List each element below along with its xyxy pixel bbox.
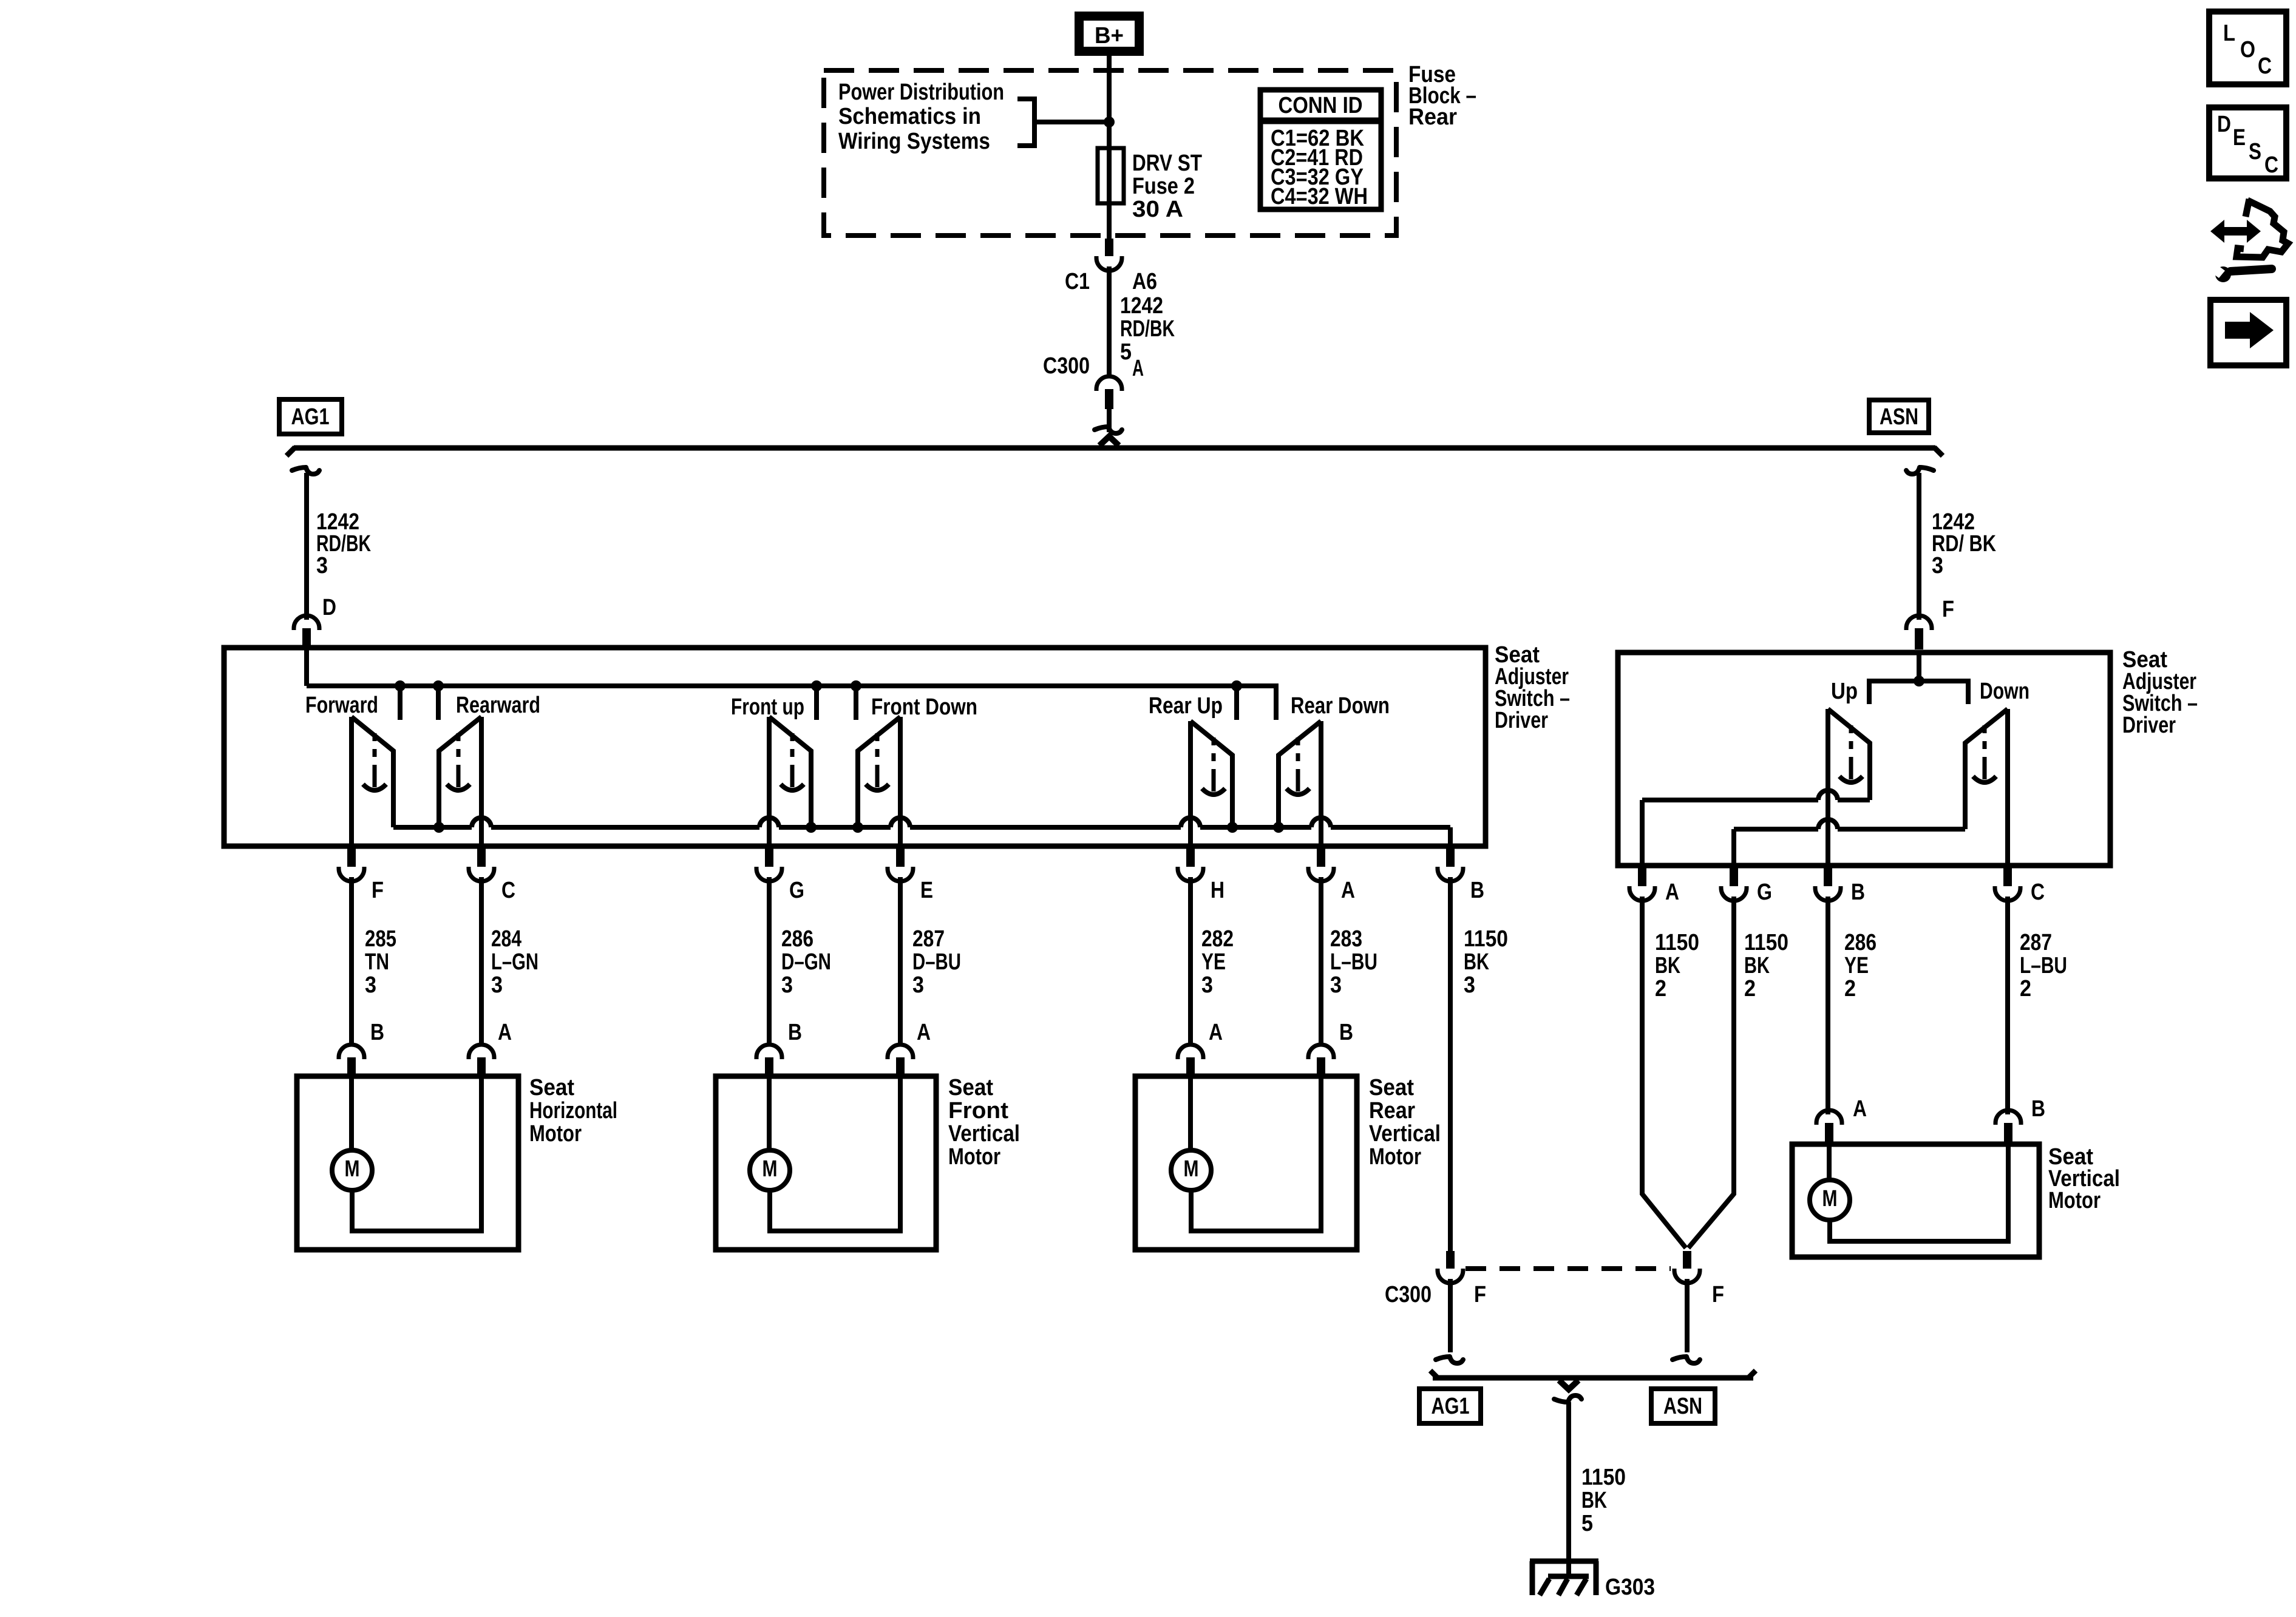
switch pole wire at 1483	[898, 717, 903, 846]
svg-text:AG1: AG1	[1432, 1394, 1470, 1419]
splice curl bottom right	[1673, 1357, 1700, 1363]
svg-text:Power Distribution: Power Distribution	[838, 80, 1004, 105]
net label ASN	[1869, 400, 1929, 433]
svg-text:C300: C300	[1043, 353, 1090, 379]
svg-text:1150: 1150	[1464, 926, 1508, 952]
svg-text:Motor: Motor	[529, 1121, 582, 1147]
svg-text:G: G	[789, 878, 804, 903]
svg-text:L–GN: L–GN	[491, 949, 538, 975]
motor internal return wire	[1191, 1079, 1321, 1231]
svg-text:286: 286	[781, 926, 813, 952]
svg-text:C: C	[2031, 880, 2045, 905]
svg-text:C: C	[2258, 53, 2272, 79]
svg-text:3: 3	[1464, 972, 1475, 998]
svg-text:3: 3	[316, 553, 328, 578]
motor box	[716, 1076, 936, 1250]
wire 1242 RD/BK 5	[1107, 266, 1112, 378]
svg-text:Rear: Rear	[1369, 1098, 1415, 1124]
fixed contact stub at 1410	[851, 680, 861, 691]
svg-text:2: 2	[1655, 976, 1666, 1002]
adjust icon double arrow	[2210, 220, 2261, 243]
next-page arrow box	[2210, 300, 2286, 365]
svg-text:Vertical: Vertical	[1369, 1121, 1441, 1147]
internal feed bracket	[1917, 653, 1921, 681]
wire 1242 RD/BK 3 left	[304, 473, 309, 620]
svg-text:D: D	[2217, 112, 2231, 137]
wire 1150 BK 3 pin B to C300	[1448, 877, 1453, 1251]
svg-text:1150: 1150	[1655, 930, 1699, 955]
connector pin B of left switch	[1446, 846, 1455, 867]
motor input connectors	[339, 1045, 364, 1059]
svg-text:Motor: Motor	[948, 1144, 1000, 1170]
wire to motor at 793	[479, 877, 484, 1045]
svg-text:F: F	[1942, 597, 1954, 622]
svg-text:B: B	[788, 1020, 802, 1045]
CONN ID table	[1260, 90, 1381, 209]
wire below C300 F	[1448, 1279, 1453, 1352]
svg-text:Wiring Systems: Wiring Systems	[838, 129, 990, 154]
svg-text:Fuse 2: Fuse 2	[1132, 174, 1195, 199]
svg-text:S: S	[2249, 139, 2261, 164]
net label ASN bottom	[1651, 1389, 1715, 1423]
svg-text:Motor: Motor	[1369, 1144, 1421, 1170]
svg-text:3: 3	[1330, 972, 1342, 998]
svg-text:Driver: Driver	[2122, 713, 2176, 738]
connector C300 pin F right	[1683, 1251, 1691, 1269]
connector pin C of right switch	[2003, 866, 2012, 886]
svg-text:5: 5	[1120, 339, 1132, 365]
LOC legend box	[2209, 12, 2286, 84]
wire B+ to fuse	[1107, 56, 1112, 240]
junction on output bus at 1413	[852, 822, 863, 833]
splice curl bottom left	[1436, 1357, 1463, 1363]
motor M	[767, 1079, 772, 1151]
svg-text:1150: 1150	[1744, 930, 1788, 955]
svg-text:E: E	[920, 878, 933, 903]
net label AG1 bottom	[1419, 1389, 1481, 1423]
svg-text:30 A: 30 A	[1132, 197, 1183, 222]
svg-text:B: B	[370, 1020, 384, 1045]
svg-text:2: 2	[2020, 976, 2031, 1002]
connector pin F of left switch	[347, 846, 356, 867]
svg-text:C300: C300	[1385, 1282, 1432, 1307]
adjust icon wrench	[2230, 269, 2272, 271]
svg-text:A6: A6	[1132, 269, 1157, 294]
svg-text:ASN: ASN	[1880, 404, 1918, 430]
svg-text:Rear: Rear	[1408, 104, 1457, 130]
svg-text:ASN: ASN	[1663, 1394, 1702, 1419]
svg-text:Forward: Forward	[305, 693, 378, 718]
svg-text:C1: C1	[1065, 269, 1090, 294]
svg-text:DRV ST: DRV ST	[1132, 151, 1202, 176]
DESC legend box	[2209, 107, 2286, 178]
wire to motor at 1961	[1188, 877, 1193, 1045]
svg-text:284: 284	[491, 926, 521, 952]
Seat Vertical Motor	[1816, 1110, 1842, 1125]
Seat Adjuster Switch - Driver (left) box	[224, 648, 1486, 846]
svg-text:287: 287	[912, 926, 945, 952]
svg-text:3: 3	[491, 972, 503, 998]
fixed contact stub at 2037	[1231, 680, 1242, 691]
motor internal return wire	[770, 1079, 900, 1231]
svg-text:283: 283	[1330, 926, 1362, 952]
connector pin E of left switch	[896, 846, 905, 867]
svg-text:D–BU: D–BU	[912, 949, 961, 975]
svg-text:F: F	[1712, 1282, 1724, 1307]
svg-text:M: M	[1184, 1156, 1199, 1182]
svg-text:3: 3	[912, 972, 924, 998]
svg-text:RD/BK: RD/BK	[1120, 316, 1175, 342]
svg-text:CONN ID: CONN ID	[1279, 93, 1363, 118]
internal wire to pin G	[1734, 827, 1818, 832]
svg-text:Front Down: Front Down	[871, 694, 977, 720]
svg-text:A: A	[1209, 1020, 1223, 1045]
svg-text:285: 285	[365, 926, 396, 952]
ground G303	[1530, 1559, 1598, 1564]
svg-text:B+: B+	[1095, 23, 1124, 49]
Seat Adjuster Switch - Driver (right) box	[1618, 653, 2110, 866]
svg-text:3: 3	[365, 972, 376, 998]
svg-text:E: E	[2233, 125, 2246, 151]
connector C300 pin A	[1096, 376, 1122, 391]
svg-text:M: M	[763, 1156, 778, 1182]
svg-text:287: 287	[2020, 930, 2052, 955]
junction on output bus at 723	[433, 822, 444, 833]
svg-text:Seat: Seat	[948, 1075, 993, 1100]
motor M	[1188, 1079, 1193, 1151]
svg-text:A: A	[1132, 356, 1144, 381]
svg-text:Front: Front	[948, 1098, 1008, 1124]
svg-text:YE: YE	[1201, 949, 1226, 975]
svg-text:AG1: AG1	[291, 404, 330, 430]
svg-text:TN: TN	[365, 949, 389, 975]
battery feed B+ terminal	[1075, 12, 1144, 56]
splice curl at bus	[1095, 427, 1122, 433]
internal output bus to pin B	[393, 825, 472, 830]
svg-text:H: H	[1211, 878, 1224, 903]
svg-text:B: B	[1470, 878, 1484, 903]
connector pin C of left switch	[477, 846, 486, 867]
junction on output bus at 2106	[1273, 822, 1284, 833]
switch poles	[1826, 709, 1830, 866]
switch pole wire at 1267	[767, 717, 772, 846]
connector pin B of right switch	[1824, 866, 1832, 886]
svg-text:BK: BK	[1655, 953, 1680, 978]
fixed contact stub at 1345	[811, 680, 822, 691]
connector pin A of left switch	[1317, 846, 1325, 867]
svg-text:Up: Up	[1831, 679, 1858, 704]
bracket from note to feed wire	[1017, 99, 1034, 146]
svg-text:BK: BK	[1744, 953, 1770, 978]
svg-text:C: C	[501, 878, 515, 903]
svg-text:D: D	[322, 595, 336, 620]
svg-text:C: C	[2264, 152, 2278, 178]
svg-text:L: L	[2223, 21, 2235, 46]
svg-text:M: M	[345, 1156, 360, 1182]
output bus drop to pin B	[1448, 827, 1453, 846]
svg-text:M: M	[1822, 1186, 1838, 1212]
connector pin H of left switch	[1186, 846, 1195, 867]
junction on output bus at 1336	[806, 822, 817, 833]
svg-text:Seat: Seat	[529, 1075, 574, 1100]
splice curl left drop	[292, 467, 319, 474]
svg-text:F: F	[1474, 1282, 1486, 1307]
svg-text:Rear Down: Rear Down	[1291, 693, 1390, 719]
svg-text:3: 3	[1932, 553, 1943, 578]
switch pole wire at 579	[349, 717, 354, 846]
svg-text:1242: 1242	[1120, 293, 1163, 319]
svg-text:L–BU: L–BU	[2020, 953, 2067, 978]
connector pin G of right switch	[1730, 866, 1738, 886]
svg-text:D–GN: D–GN	[781, 949, 831, 975]
svg-text:A: A	[1665, 880, 1679, 905]
svg-text:Rear Up: Rear Up	[1149, 693, 1223, 719]
svg-text:B: B	[1339, 1020, 1353, 1045]
internal wire to pin A	[1642, 798, 1818, 802]
motor input connectors	[756, 1045, 782, 1059]
svg-text:282: 282	[1201, 926, 1234, 952]
adjust icon outline	[2237, 199, 2288, 257]
wire 1242 RD/ BK 3 right	[1917, 473, 1921, 620]
svg-text:BK: BK	[1581, 1488, 1607, 1513]
fixed contact stub at 722	[433, 680, 444, 691]
splice curl to ground wire	[1554, 1395, 1581, 1402]
svg-text:YE: YE	[1844, 953, 1869, 978]
svg-text:C4=32 WH: C4=32 WH	[1271, 184, 1368, 209]
svg-text:G303: G303	[1605, 1575, 1655, 1600]
svg-text:A: A	[498, 1020, 512, 1045]
svg-text:Motor: Motor	[2048, 1188, 2101, 1213]
svg-text:Rearward: Rearward	[456, 693, 540, 718]
wires to seat vertical motor	[1826, 897, 1830, 1114]
svg-text:Horizontal: Horizontal	[529, 1098, 617, 1124]
motor input connectors	[1178, 1045, 1203, 1059]
fuse DRV ST Fuse 2 30 A	[1098, 148, 1124, 203]
svg-text:F: F	[372, 878, 384, 903]
connector C300 pin F left	[1446, 1251, 1455, 1269]
svg-text:Seat: Seat	[1369, 1075, 1414, 1100]
connector pin A of right switch	[1638, 866, 1646, 886]
svg-text:O: O	[2240, 37, 2255, 63]
motor M	[349, 1079, 354, 1151]
wire to motor at 1267	[767, 877, 772, 1045]
motor box	[1135, 1076, 1357, 1250]
motor internal return wire	[352, 1079, 481, 1231]
wire below right F	[1685, 1279, 1690, 1352]
internal feed bus	[307, 686, 1276, 720]
fuse block dashed box	[824, 70, 1396, 236]
connector pin G of left switch	[765, 846, 773, 867]
wire to motor at 579	[349, 877, 354, 1045]
svg-text:A: A	[917, 1020, 931, 1045]
svg-text:3: 3	[781, 972, 793, 998]
connector C1 pin A6	[1105, 239, 1113, 256]
svg-text:BK: BK	[1464, 949, 1489, 975]
svg-text:Schematics in: Schematics in	[838, 104, 981, 129]
wire to motor at 1483	[898, 877, 903, 1045]
switch pole wire at 1961	[1188, 721, 1193, 846]
svg-text:B: B	[2031, 1096, 2045, 1122]
motor box	[297, 1076, 518, 1250]
svg-text:Vertical: Vertical	[948, 1121, 1020, 1147]
junction on feed wire	[1104, 117, 1115, 127]
switch pole wire at 2176	[1319, 721, 1323, 846]
bottom ground bus	[1433, 1375, 1753, 1381]
svg-text:Front up: Front up	[731, 694, 804, 720]
splice curl right drop	[1906, 467, 1934, 474]
main power bus AG1-ASN	[294, 446, 1935, 451]
svg-text:2: 2	[1844, 976, 1856, 1002]
wires 1150 BK 2 converging	[1642, 897, 1686, 1248]
svg-text:286: 286	[1844, 930, 1877, 955]
svg-text:A: A	[1853, 1096, 1867, 1122]
net label AG1	[279, 399, 342, 434]
switch pole wire at 793	[479, 717, 484, 846]
svg-text:1150: 1150	[1581, 1465, 1626, 1490]
svg-text:2: 2	[1744, 976, 1756, 1002]
wire C300 to bus splice	[1107, 409, 1112, 432]
wire D into switch	[304, 648, 309, 686]
svg-text:L–BU: L–BU	[1330, 949, 1377, 975]
dashed connector link C300	[1466, 1266, 1671, 1271]
svg-text:5: 5	[1581, 1511, 1593, 1536]
wire 1150 BK 5	[1566, 1402, 1571, 1578]
svg-text:A: A	[1341, 878, 1355, 903]
svg-text:Down: Down	[1980, 679, 2029, 704]
bus chevron	[1099, 436, 1119, 446]
svg-text:Driver: Driver	[1495, 708, 1548, 733]
junction on output bus at 2030	[1227, 822, 1238, 833]
svg-text:3: 3	[1201, 972, 1213, 998]
svg-text:B: B	[1851, 880, 1865, 905]
svg-text:G: G	[1757, 880, 1772, 905]
wire to motor at 2176	[1319, 877, 1323, 1045]
fixed contact stub at 659	[395, 680, 406, 691]
